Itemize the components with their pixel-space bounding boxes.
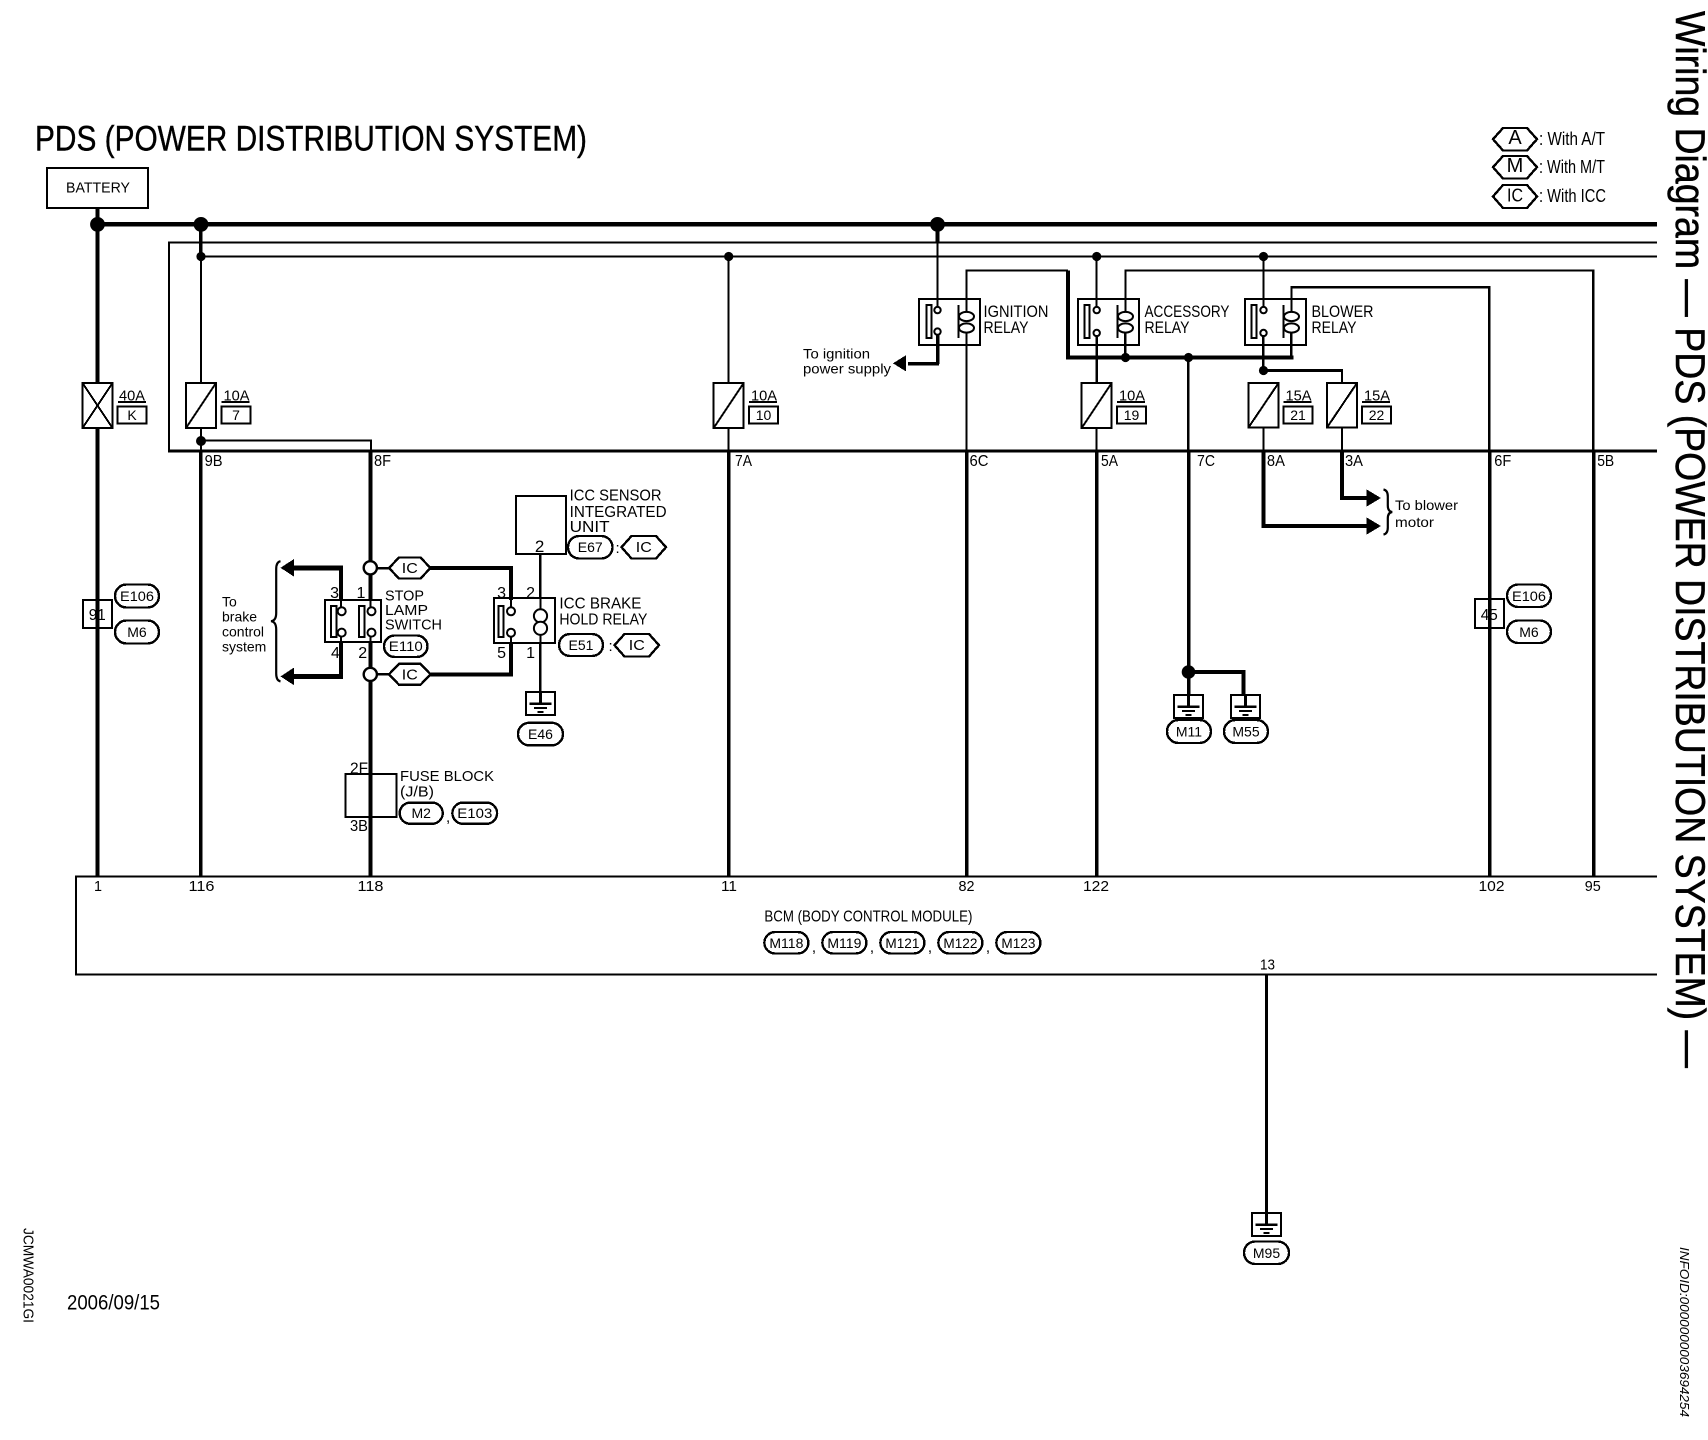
wire xyxy=(1096,428,1098,450)
connector label E110 xyxy=(384,636,428,658)
svg-text:ICC SENSOR: ICC SENSOR xyxy=(570,488,662,505)
wire xyxy=(1263,256,1265,307)
svg-text:6C: 6C xyxy=(970,453,989,470)
legend hex A xyxy=(1493,128,1537,151)
wire xyxy=(118,401,146,403)
ground E46 xyxy=(526,692,555,715)
connector label M95 xyxy=(1244,1242,1289,1265)
wire xyxy=(222,401,250,403)
fusible link K 40A xyxy=(83,383,113,428)
svg-text:,: , xyxy=(928,939,932,956)
svg-text:13: 13 xyxy=(1260,957,1275,974)
wire xyxy=(1189,670,1246,674)
wire xyxy=(509,566,513,600)
svg-text:M: M xyxy=(1507,155,1524,177)
svg-text:E51: E51 xyxy=(569,637,594,653)
wire xyxy=(1125,270,1595,272)
ICC sensor integrated unit box xyxy=(516,496,566,554)
wire xyxy=(1262,524,1370,528)
switch contact bar left xyxy=(331,606,337,637)
svg-text:system: system xyxy=(222,638,266,654)
wire xyxy=(369,574,373,600)
wire xyxy=(370,600,372,607)
svg-text:5B: 5B xyxy=(1597,453,1614,470)
wire xyxy=(200,428,202,441)
wire xyxy=(966,345,968,450)
wire xyxy=(728,428,730,450)
wire xyxy=(727,451,731,876)
svg-text:Wiring Diagram — PDS (POWER DI: Wiring Diagram — PDS (POWER DISTRIBUTION… xyxy=(1667,11,1708,1068)
wire xyxy=(1284,401,1312,403)
wire xyxy=(965,451,969,876)
svg-text:M118: M118 xyxy=(769,935,803,951)
svg-text:IC: IC xyxy=(402,560,418,577)
svg-text:1: 1 xyxy=(356,585,365,602)
svg-text:M55: M55 xyxy=(1232,724,1259,740)
wire xyxy=(369,817,373,876)
svg-text:118: 118 xyxy=(358,878,384,895)
wire xyxy=(1264,369,1344,372)
wire xyxy=(96,222,1658,227)
wire xyxy=(370,637,372,642)
svg-text:6F: 6F xyxy=(1494,453,1511,470)
wire xyxy=(292,565,343,570)
svg-text:M121: M121 xyxy=(885,935,919,951)
wire xyxy=(370,441,372,451)
IC tag E51 xyxy=(615,634,660,657)
wire xyxy=(937,243,939,308)
IC tag E67 xyxy=(622,536,667,559)
svg-text:RELAY: RELAY xyxy=(1145,318,1190,337)
connector label M2 xyxy=(400,803,443,824)
connector label E106 xyxy=(1507,585,1551,608)
wire xyxy=(1096,256,1098,307)
svg-text:M6: M6 xyxy=(1519,624,1539,640)
ground M95 xyxy=(1252,1213,1281,1236)
wire xyxy=(369,642,373,668)
svg-text:JCMWA0021GI: JCMWA0021GI xyxy=(19,1228,36,1323)
svg-text:ICC BRAKE: ICC BRAKE xyxy=(559,595,641,612)
svg-text:3B: 3B xyxy=(350,818,368,835)
svg-text:(J/B): (J/B) xyxy=(400,784,434,801)
switch contact bar right xyxy=(359,606,365,637)
svg-text:E106: E106 xyxy=(120,588,154,604)
fuse number box 21 xyxy=(1284,407,1313,424)
joint 45 box xyxy=(1475,599,1504,628)
svg-text:M6: M6 xyxy=(127,624,147,640)
brace to brake control system xyxy=(271,561,281,681)
svg-text:3: 3 xyxy=(330,585,339,602)
svg-text:E106: E106 xyxy=(1512,588,1546,604)
wire xyxy=(1242,672,1246,695)
wire xyxy=(201,440,372,442)
wire xyxy=(1265,975,1268,1214)
junction accessory coil xyxy=(1121,353,1130,362)
wire xyxy=(1187,359,1190,450)
svg-text:9B: 9B xyxy=(205,453,223,470)
svg-text:1: 1 xyxy=(94,878,102,895)
svg-text:To ignition: To ignition xyxy=(803,346,870,362)
legend hex M xyxy=(1493,156,1537,179)
svg-text:8F: 8F xyxy=(374,453,391,470)
ground M11 xyxy=(1174,695,1203,718)
svg-text:UNIT: UNIT xyxy=(570,519,610,536)
svg-text:E110: E110 xyxy=(389,638,423,654)
ignition relay box xyxy=(919,299,980,345)
joint 91 box xyxy=(83,600,112,628)
connector label M122 xyxy=(938,932,982,954)
svg-text:45: 45 xyxy=(1481,607,1498,624)
junction blower fuses xyxy=(1259,366,1268,375)
svg-text:5: 5 xyxy=(497,645,506,662)
wire xyxy=(908,362,939,366)
wire xyxy=(96,428,100,876)
wire xyxy=(966,270,1069,272)
wire xyxy=(1592,451,1596,876)
svg-text:E67: E67 xyxy=(578,539,603,555)
wire xyxy=(377,673,391,676)
wire xyxy=(292,674,343,679)
svg-text:95: 95 xyxy=(1585,878,1601,895)
fuse number box 7 xyxy=(222,407,251,424)
fuse 22 15A xyxy=(1327,383,1357,428)
connector label E103 xyxy=(452,803,497,824)
wire xyxy=(728,256,730,383)
wire xyxy=(1124,332,1127,356)
wire xyxy=(199,226,203,256)
junction bus ignition feed xyxy=(930,217,945,232)
battery box xyxy=(47,168,148,208)
svg-text:IC: IC xyxy=(636,539,652,556)
wire xyxy=(168,242,170,451)
fuse 10 10A xyxy=(714,383,744,428)
svg-text:RELAY: RELAY xyxy=(984,318,1029,337)
wire xyxy=(168,450,1657,453)
connector label E106 xyxy=(115,585,159,608)
svg-text:IC: IC xyxy=(629,637,645,654)
wire xyxy=(1341,428,1343,451)
wire xyxy=(540,635,542,643)
connector label M118 xyxy=(764,932,808,954)
fuse number box 10 xyxy=(749,407,778,424)
connector label M123 xyxy=(996,932,1040,954)
svg-text:motor: motor xyxy=(1395,514,1434,530)
wire xyxy=(1291,286,1491,289)
connector label M6 xyxy=(1507,621,1551,644)
stop lamp switch box xyxy=(325,600,381,642)
svg-text:7C: 7C xyxy=(1197,453,1215,470)
wire xyxy=(1095,451,1099,876)
svg-text:K: K xyxy=(127,407,137,423)
svg-text:M11: M11 xyxy=(1176,724,1202,740)
junction 9B/8F split xyxy=(196,436,206,446)
svg-text:A: A xyxy=(1508,127,1522,149)
BCM (body control module) box xyxy=(76,877,1657,975)
svg-text:3A: 3A xyxy=(1345,453,1363,470)
fuse number box 19 xyxy=(1117,407,1146,424)
svg-text:INFOID:0000000003694254: INFOID:0000000003694254 xyxy=(1677,1247,1692,1417)
junction rail2 x201 xyxy=(196,252,205,261)
wire xyxy=(369,681,373,818)
svg-text:19: 19 xyxy=(1124,407,1140,423)
svg-text:BATTERY: BATTERY xyxy=(66,180,130,197)
svg-text:To blower: To blower xyxy=(1395,497,1458,513)
svg-text:: With M/T: : With M/T xyxy=(1539,157,1605,177)
svg-text:E46: E46 xyxy=(528,726,553,742)
connector label M121 xyxy=(880,932,924,954)
IC tag lower xyxy=(389,664,431,685)
svg-text:power supply: power supply xyxy=(803,360,891,376)
wire xyxy=(749,401,777,403)
wire xyxy=(369,453,373,562)
wire xyxy=(1290,332,1293,356)
svg-text:M122: M122 xyxy=(943,935,977,951)
wire xyxy=(1262,335,1265,371)
svg-text:SWITCH: SWITCH xyxy=(385,616,442,633)
junction battery bus xyxy=(90,217,105,232)
wire xyxy=(510,637,512,643)
svg-text:BCM (BODY CONTROL MODULE): BCM (BODY CONTROL MODULE) xyxy=(764,909,972,926)
svg-text:7: 7 xyxy=(232,407,240,423)
wire xyxy=(1262,451,1266,528)
wire xyxy=(340,600,342,607)
wire xyxy=(96,208,100,226)
svg-text:8A: 8A xyxy=(1267,453,1285,470)
wire xyxy=(1488,288,1491,451)
wire xyxy=(1066,356,1294,360)
svg-text:To: To xyxy=(222,593,237,609)
ignition relay coil xyxy=(958,305,975,338)
svg-text:2006/09/15: 2006/09/15 xyxy=(67,1291,160,1314)
wire xyxy=(540,598,542,609)
connector label M6 xyxy=(115,621,159,644)
wire xyxy=(936,334,940,364)
arrow to brake control (lower) xyxy=(281,668,295,686)
wire xyxy=(1187,451,1191,672)
svg-text:: With A/T: : With A/T xyxy=(1539,129,1605,149)
blower relay coil xyxy=(1283,305,1300,338)
connector label E46 xyxy=(518,723,563,746)
wire xyxy=(431,566,514,570)
svg-text:116: 116 xyxy=(189,878,215,895)
wire xyxy=(200,441,202,450)
svg-text:3: 3 xyxy=(497,585,506,602)
svg-text:2: 2 xyxy=(526,585,535,602)
wire xyxy=(1341,371,1343,384)
inline connector circle lower xyxy=(364,668,377,681)
arrow to ignition power supply xyxy=(893,355,906,371)
svg-text::: : xyxy=(609,638,613,655)
ignition contact bar xyxy=(927,305,932,338)
fuse block box xyxy=(345,774,396,817)
svg-text:82: 82 xyxy=(959,878,975,895)
wire xyxy=(1096,335,1099,383)
wire xyxy=(1592,271,1595,451)
wire xyxy=(339,642,343,676)
junction rail2 7A xyxy=(724,252,733,261)
svg-text:10: 10 xyxy=(756,407,772,423)
fuse 21 15A xyxy=(1249,383,1279,428)
inline connector circle upper xyxy=(364,561,377,574)
svg-text:5A: 5A xyxy=(1101,453,1118,470)
svg-text:HOLD RELAY: HOLD RELAY xyxy=(559,611,647,628)
svg-text:PDS (POWER DISTRIBUTION SYSTEM: PDS (POWER DISTRIBUTION SYSTEM) xyxy=(35,120,587,159)
connector label M11 xyxy=(1167,720,1211,743)
wire xyxy=(1117,401,1145,403)
junction rail2 blower xyxy=(1259,252,1268,261)
svg-text:2: 2 xyxy=(535,537,544,556)
arrow to brake control (upper) xyxy=(281,559,295,577)
wire xyxy=(510,598,512,607)
wire xyxy=(966,271,968,313)
fuse 19 10A xyxy=(1082,383,1112,428)
connector label M119 xyxy=(822,932,866,954)
svg-text:,: , xyxy=(812,939,816,956)
wire xyxy=(201,256,1657,258)
wire xyxy=(1187,672,1191,695)
wire xyxy=(1488,451,1492,876)
svg-text:M2: M2 xyxy=(411,805,431,821)
wire xyxy=(199,451,203,876)
wire xyxy=(1340,451,1344,500)
wire xyxy=(340,637,342,642)
wire xyxy=(1066,271,1070,357)
accessory relay coil xyxy=(1117,305,1134,338)
svg-text:E103: E103 xyxy=(457,805,492,821)
icc relay coil xyxy=(534,609,547,635)
svg-text:,: , xyxy=(870,939,874,956)
accessory relay box xyxy=(1078,299,1139,345)
wire xyxy=(1263,428,1265,451)
wire xyxy=(1340,496,1369,500)
fuse number box 22 xyxy=(1362,407,1391,424)
svg-text:M119: M119 xyxy=(827,935,861,951)
wire xyxy=(1362,401,1390,403)
wire xyxy=(431,672,514,676)
wire xyxy=(539,643,542,692)
svg-text:,: , xyxy=(986,939,990,956)
connector label E67 xyxy=(568,536,613,559)
junction 7C xyxy=(1184,353,1193,362)
svg-text:M95: M95 xyxy=(1253,1245,1280,1261)
IC tag upper xyxy=(389,558,431,579)
svg-text:1: 1 xyxy=(526,645,535,662)
accessory contact bar xyxy=(1085,305,1090,338)
brace to blower motor xyxy=(1384,490,1393,535)
wire xyxy=(169,242,1657,244)
wire xyxy=(1125,271,1127,313)
svg-text:IC: IC xyxy=(1507,186,1523,206)
ICC brake hold relay box xyxy=(494,598,555,643)
wire xyxy=(539,554,542,598)
wire xyxy=(1291,288,1293,313)
wire xyxy=(966,332,968,345)
wire xyxy=(509,643,513,676)
blower relay box xyxy=(1245,299,1306,345)
wire xyxy=(936,226,940,243)
connector label E51 xyxy=(559,634,603,656)
svg-text:22: 22 xyxy=(1369,407,1385,423)
arrow to blower motor (lower) xyxy=(1367,517,1382,534)
ground M55 xyxy=(1231,695,1260,718)
svg-text:M123: M123 xyxy=(1001,935,1035,951)
svg-text:2F: 2F xyxy=(350,760,368,777)
fuse 7 10A xyxy=(186,383,216,428)
svg-text:brake: brake xyxy=(222,608,257,624)
svg-text:7A: 7A xyxy=(735,453,752,470)
svg-text:RELAY: RELAY xyxy=(1312,318,1357,337)
svg-text:,: , xyxy=(446,809,450,826)
svg-text::: : xyxy=(616,540,620,557)
svg-text:: With ICC: : With ICC xyxy=(1539,186,1606,206)
junction grounds xyxy=(1182,665,1196,679)
wire xyxy=(339,568,343,600)
junction bus fuse7 feed xyxy=(194,217,209,232)
wire xyxy=(377,567,391,570)
junction rail2 accessory xyxy=(1092,252,1101,261)
svg-text:IC: IC xyxy=(402,666,418,683)
svg-text:21: 21 xyxy=(1290,407,1306,423)
connector label M55 xyxy=(1224,720,1268,743)
svg-text:122: 122 xyxy=(1083,878,1109,895)
fuse number box K xyxy=(118,407,147,424)
wire xyxy=(96,226,100,383)
svg-text:4: 4 xyxy=(331,645,340,662)
blower contact bar xyxy=(1252,305,1257,338)
svg-text:91: 91 xyxy=(89,607,106,624)
svg-text:2: 2 xyxy=(358,645,367,662)
svg-text:11: 11 xyxy=(721,878,737,895)
svg-text:102: 102 xyxy=(1479,878,1505,895)
svg-text:control: control xyxy=(222,623,264,639)
icc relay contact bar xyxy=(499,606,504,637)
arrow to blower motor (upper) xyxy=(1367,489,1382,506)
wire xyxy=(200,256,202,383)
legend hex IC xyxy=(1493,185,1537,208)
